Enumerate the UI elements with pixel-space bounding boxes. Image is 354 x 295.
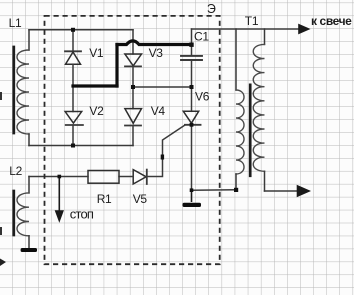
core bar of L2: [12, 191, 15, 235]
svg-text:V1: V1: [89, 46, 104, 60]
diode V5: [119, 170, 147, 184]
svg-text:V6: V6: [195, 89, 210, 103]
wire V6 gate to V5: [147, 125, 185, 177]
svg-text:к свече: к свече: [311, 14, 352, 28]
svg-text:Э: Э: [207, 2, 216, 16]
scan mark left edge 2: [0, 227, 2, 235]
arrow to spark plug: [299, 25, 309, 33]
arrow secondary output: [298, 186, 310, 196]
wire C1 top to spark output: [192, 28, 305, 30]
svg-text:L2: L2: [9, 164, 22, 178]
junction node V6 ground: [190, 188, 194, 192]
svg-text:C1: C1: [194, 30, 209, 44]
thyristor V6: [183, 87, 200, 190]
wire thick top with hop over V3: [117, 41, 192, 45]
junction node mid rail / V3: [131, 85, 135, 89]
transformer T1 core: [249, 85, 252, 176]
wire ground rail V6 to primary bottom: [192, 189, 237, 191]
ground under L2: [21, 248, 37, 252]
svg-text:V3: V3: [149, 46, 164, 60]
inductor L2: [17, 177, 29, 249]
junction node stop arrow: [58, 175, 62, 179]
diode V2: [65, 86, 83, 146]
transformer T1 secondary winding: [253, 29, 264, 191]
junction node V6 cathode: [190, 123, 194, 127]
svg-text:R1: R1: [97, 192, 112, 206]
core bar of L1: [12, 47, 15, 133]
diode V1: [65, 30, 81, 86]
transformer T1 primary winding: [236, 29, 244, 190]
ground under V6: [183, 190, 202, 207]
thick discharge path wire: [73, 41, 192, 86]
svg-text:T1: T1: [245, 14, 259, 28]
dashed enclosure box: [45, 16, 220, 264]
scan mark left edge 1: [0, 92, 2, 100]
wire thick riser: [115, 45, 118, 87]
svg-text:V5: V5: [133, 192, 148, 206]
junction node primary bottom: [234, 188, 238, 192]
junction node thick wire / C1: [189, 43, 193, 47]
junction node top rail / V1: [71, 28, 75, 32]
wire secondary bottom output: [265, 190, 299, 192]
inductor L1: [17, 30, 29, 146]
junction node mid rail / V6: [190, 85, 194, 89]
junction node lower rail / V2: [71, 144, 75, 148]
capacitor C1: [181, 29, 202, 87]
stop arrow: [56, 177, 63, 221]
diode V4: [125, 87, 142, 146]
svg-text:стоп: стоп: [70, 207, 94, 222]
resistor R1: [29, 171, 119, 184]
svg-text:V4: V4: [151, 104, 166, 118]
wire top rail L1 to V3: [29, 29, 133, 31]
diode V3: [125, 30, 142, 87]
wire lower rail L1 to V4: [29, 145, 133, 147]
wire thick V1 anode to riser: [73, 84, 117, 87]
scan mark left edge 3: [0, 259, 6, 267]
svg-text:V2: V2: [89, 104, 104, 118]
blob on gate wire: [161, 155, 164, 160]
wire mid rail V3/V4 to V6: [133, 86, 192, 88]
svg-text:L1: L1: [9, 16, 22, 30]
